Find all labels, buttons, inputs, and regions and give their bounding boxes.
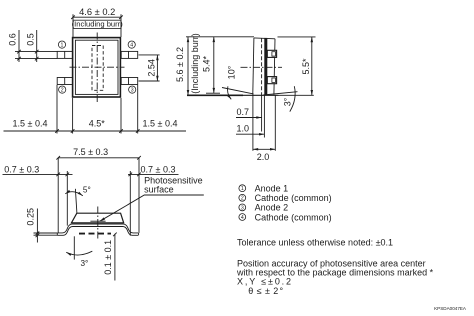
svg-text:0.5: 0.5: [26, 33, 36, 46]
lead pin 4 (top-right): [121, 51, 138, 58]
lead pin 3 (bottom-right): [121, 78, 138, 85]
dimension 0.25 (lead thickness): [25, 208, 57, 242]
svg-text:0.6: 0.6: [7, 33, 17, 46]
dimension 5.4*: [201, 37, 220, 93]
svg-text:0.7 ± 0.3: 0.7 ± 0.3: [4, 164, 39, 174]
svg-text:2: 2: [61, 88, 64, 94]
horizontal centerline: [70, 66, 125, 68]
dimension 0.7 +/- 0.3 (left): [3, 164, 73, 225]
dimension 7.5 +/- 0.3: [56, 147, 140, 233]
svg-text:5°: 5°: [83, 186, 91, 195]
svg-text:2.0: 2.0: [257, 152, 270, 162]
top extension line (left of side view): [186, 36, 254, 38]
lower extension lines below seating: [253, 94, 275, 151]
svg-text:1.0: 1.0: [237, 124, 250, 134]
photosensitive surface label and leader: [100, 176, 204, 222]
svg-text:(Including burr): (Including burr): [190, 33, 200, 94]
hidden package bottom dashed line: [79, 233, 111, 235]
svg-text:10°: 10°: [227, 65, 237, 79]
position accuracy note: [236, 258, 434, 296]
svg-text:Tolerance unless otherwise not: Tolerance unless otherwise noted: ±0.1: [237, 237, 393, 247]
legend pin 4: [239, 212, 332, 222]
svg-text:5.5*: 5.5*: [301, 58, 311, 75]
pin number 2: [59, 86, 66, 94]
dimension 1.0 (side bottom): [236, 124, 264, 135]
dimension 0.1 +/- 0.1 (standoff): [103, 233, 117, 281]
pin number 3: [129, 86, 136, 94]
front body trapezoid: [71, 213, 123, 223]
lead edge extension lines (left): [15, 52, 57, 59]
legend pin 2: [239, 193, 332, 203]
lead frame gull-wing profile: [57, 224, 138, 235]
svg-text:0.1 ± 0.1: 0.1 ± 0.1: [103, 240, 113, 275]
svg-text:(Including burr): (Including burr): [72, 20, 124, 29]
dimension 0.6 (lead, left): [7, 30, 20, 62]
svg-text:5.4*: 5.4*: [201, 55, 211, 72]
dimension 0.7 +/- 0.3 (right): [128, 164, 179, 235]
package body outer outline: [73, 38, 121, 97]
svg-text:surface: surface: [144, 185, 174, 195]
svg-text:Anode 1: Anode 1: [255, 184, 289, 194]
10 deg slant line: [222, 88, 254, 94]
svg-text:4: 4: [130, 43, 133, 49]
legend pin 1: [239, 184, 288, 194]
svg-text:Cathode (common): Cathode (common): [255, 212, 332, 222]
lead pin 1 (top-left): [57, 51, 72, 58]
side lead lower: [267, 77, 276, 84]
5 deg angle (front): [65, 186, 90, 214]
svg-text:1.5 ± 0.4: 1.5 ± 0.4: [143, 118, 178, 128]
front vertical centerline: [97, 207, 99, 241]
svg-text:2.54: 2.54: [147, 59, 157, 77]
svg-text:1.5 ± 0.4: 1.5 ± 0.4: [13, 118, 48, 128]
svg-text:4.5*: 4.5*: [89, 118, 106, 128]
svg-text:7.5 ± 0.3: 7.5 ± 0.3: [73, 147, 108, 157]
side body outline: [253, 38, 275, 95]
svg-text:3°: 3°: [81, 259, 89, 268]
bottom dimension line 1.5 / 4.5 / 1.5: [4, 85, 187, 134]
svg-text:4: 4: [241, 215, 244, 221]
pin number 4: [128, 41, 135, 49]
svg-text:3: 3: [131, 88, 134, 94]
svg-text:3°: 3°: [282, 97, 292, 106]
svg-text:3: 3: [241, 205, 244, 211]
svg-text:θ≤±2°: θ≤±2°: [248, 286, 283, 296]
lead pin 2 (bottom-left): [57, 78, 72, 85]
svg-text:0.7: 0.7: [237, 107, 250, 117]
dimension 0.5 (lead, left): [26, 30, 39, 62]
3 deg lead foot line (side): [263, 92, 297, 95]
dimension 5.5* (right): [278, 37, 316, 95]
svg-text:KPSDA0047EA: KPSDA0047EA: [434, 306, 467, 311]
drawing code: [434, 306, 467, 311]
3 deg angle (front): [66, 236, 92, 268]
vertical centerline: [96, 33, 98, 104]
dark body edge bar: [264, 38, 267, 95]
dimension 2.54 (right): [139, 55, 160, 81]
svg-text:1: 1: [61, 43, 64, 49]
svg-text:0.7 ± 0.3: 0.7 ± 0.3: [141, 164, 176, 174]
dimension 4.6 +/- 0.2 (top): [71, 7, 123, 37]
side lead upper: [267, 50, 276, 57]
chip center cross line: [90, 220, 105, 222]
package body inner outline: [75, 40, 118, 94]
including burr box (top): [72, 20, 124, 29]
svg-text:0.25: 0.25: [25, 208, 35, 226]
lens plane dashed line: [261, 38, 263, 95]
seating plane: [187, 94, 314, 96]
svg-text:4.6 ± 0.2: 4.6 ± 0.2: [79, 7, 115, 17]
svg-text:Cathode (common): Cathode (common): [255, 193, 332, 203]
3 deg angle arc (side): [282, 86, 295, 111]
photosensitive area dashed rect: [92, 46, 103, 91]
svg-text:2: 2: [241, 196, 244, 202]
legend pin 3: [239, 203, 288, 213]
dimension 2.0 (side bottom): [253, 149, 275, 162]
tolerance note: [237, 237, 393, 247]
svg-text:Anode 2: Anode 2: [255, 203, 289, 213]
10 deg angle arc: [227, 65, 237, 99]
dimension 5.6 +/- 0.2: [175, 33, 200, 95]
pin number 1: [58, 41, 65, 49]
dimension 0.7 (side bottom): [236, 107, 262, 118]
svg-text:1: 1: [241, 186, 244, 192]
svg-text:5.6 ± 0.2: 5.6 ± 0.2: [175, 47, 185, 82]
side horizontal centerline: [241, 66, 283, 68]
